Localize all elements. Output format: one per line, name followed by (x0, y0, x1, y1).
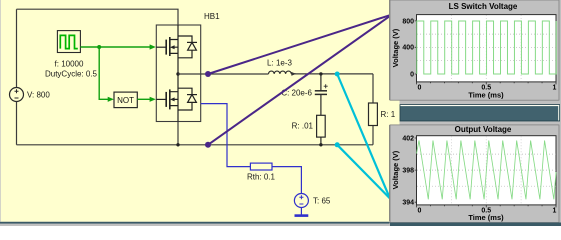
y ticks (415, 138, 417, 202)
y ticks (415, 21, 417, 74)
diode D1 (body diode of Q1) (178, 36, 197, 58)
wire: NOT output to LS switch gate (137, 97, 156, 102)
wire: damping resistor to bottom rail (320, 137, 322, 145)
node: gate signal junction (97, 45, 101, 49)
wire: inductor to output node (291, 73, 373, 75)
waveform: LS switch voltage square wave (417, 21, 556, 74)
node: HB1 source on bottom rail (176, 143, 179, 146)
wire: gate signal to HS switch (80, 44, 155, 49)
wire: top rail from V+ to HB1 drain (17, 9, 179, 25)
wire: switch node to inductor (178, 73, 269, 75)
node: negative rail probe junction (205, 142, 211, 148)
node: C branch tap on output rail (319, 72, 322, 75)
ground (thermal reference) (295, 214, 309, 217)
probe wire: switch node to LS scope (208, 15, 390, 74)
wire: Rth to temperature source (272, 167, 301, 194)
node: output voltage probe (bottom) (335, 142, 340, 147)
mosfet Q2 (low side) (156, 74, 178, 122)
x ticks (417, 205, 557, 208)
plot area (417, 15, 557, 82)
schematic canvas background (0, 0, 400, 226)
wire: capacitor to damping resistor (320, 94, 322, 115)
wire: HB1 bottom to ground rail (177, 122, 179, 145)
y axis labels (402, 135, 414, 206)
resistor R: .01 (317, 115, 326, 137)
voltage source V: 800 (10, 88, 24, 102)
thermal wire from HB1 to Rth (201, 104, 251, 167)
temperature source T: 65 (294, 194, 308, 215)
pulse generator block (57, 31, 80, 53)
node: switch node junction inside HB1 (176, 72, 179, 75)
wire: output node down to capacitor (320, 74, 322, 91)
wire: load branch right side (372, 74, 374, 145)
mosfet Q1 (high side) (156, 25, 178, 74)
probe wire: negative rail to LS scope (208, 16, 390, 145)
x axis labels (418, 85, 557, 92)
grid (417, 15, 556, 82)
wire: gate branch down to NOT (99, 47, 114, 102)
x ticks (417, 82, 557, 85)
waveform: output voltage ripple (417, 141, 557, 200)
probe wire: output+ to output scope (337, 74, 390, 199)
resistor Rth: 0.1 (250, 163, 272, 170)
capacitor C: 20e-6 (315, 84, 328, 94)
y axis labels (402, 18, 414, 78)
resistor R: 1 (load) (369, 103, 378, 126)
logic NOT block (114, 92, 137, 108)
plot area (417, 136, 557, 205)
x axis labels (418, 207, 557, 214)
node: switch node probe junction (205, 71, 211, 77)
wire: bottom rail (17, 144, 374, 146)
inductor L: 1e-3 (269, 71, 297, 76)
diode D2 (body diode of Q2) (178, 88, 197, 110)
schematic window right border (388, 0, 391, 100)
node: damping branch on bottom rail (319, 143, 322, 146)
node: output voltage probe (top) (335, 72, 340, 77)
grid (417, 136, 556, 204)
bottom strip (390, 223, 561, 227)
probe wire: output- to output scope (337, 145, 390, 199)
wire: left branch with V source (16, 9, 18, 145)
subsystem HB1 box (156, 25, 200, 122)
